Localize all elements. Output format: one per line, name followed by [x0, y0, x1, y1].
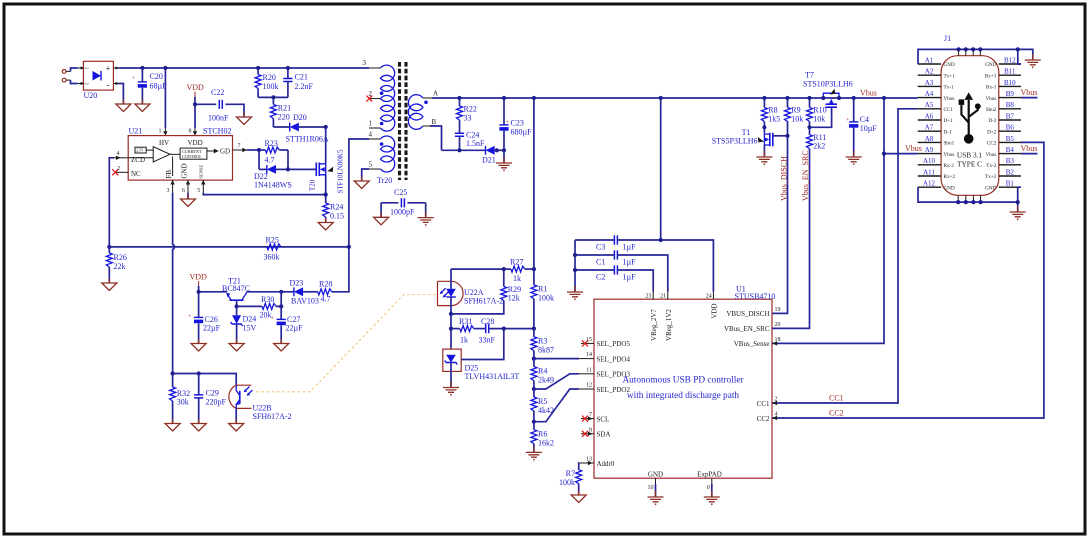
- svg-text:20: 20: [775, 322, 781, 328]
- svg-text:5: 5: [369, 161, 373, 169]
- svg-text:B3: B3: [1006, 157, 1015, 165]
- svg-text:680µF: 680µF: [511, 128, 533, 137]
- junction R22 top: [457, 96, 461, 100]
- capacitor C27: [271, 315, 304, 344]
- svg-text:B9: B9: [1006, 90, 1015, 98]
- svg-text:STCH02: STCH02: [203, 127, 231, 136]
- ground (C25 primary side): [374, 213, 389, 225]
- svg-text:GND: GND: [985, 185, 996, 191]
- earth ground (C23/D21): [496, 157, 512, 172]
- transformer Tr20 primary winding 3-2: [363, 59, 395, 101]
- pin HV (1): [159, 128, 168, 136]
- svg-text:2: 2: [775, 397, 778, 403]
- svg-text:B7: B7: [1006, 112, 1015, 120]
- svg-text:HV: HV: [159, 139, 169, 147]
- resistor R7: [559, 469, 582, 495]
- J1 shield pin: [965, 195, 967, 202]
- wire input N to bridge: [71, 80, 78, 83]
- J1 pin A3: [918, 79, 941, 87]
- junction sense node: [324, 193, 328, 197]
- svg-text:12k: 12k: [508, 294, 520, 303]
- capacitor C26: [188, 314, 221, 344]
- svg-text:R26: R26: [114, 253, 127, 262]
- svg-text:STS5P3LLH6: STS5P3LLH6: [712, 137, 758, 146]
- svg-text:R9: R9: [791, 106, 800, 115]
- svg-text:D-2: D-2: [988, 118, 996, 124]
- wire GD to gate network: [247, 149, 260, 151]
- U1 right pin 20 VBus_EN_SRC wire: [772, 149, 810, 329]
- earth ground (U1 GND): [648, 491, 664, 506]
- pin ZCD (4): [114, 151, 128, 160]
- svg-text:22µF: 22µF: [203, 324, 221, 333]
- caps common ground wire: [574, 240, 576, 292]
- wire C25 right to earth: [425, 203, 427, 218]
- svg-text:18: 18: [775, 337, 781, 343]
- polarity dot (pin4 side): [380, 142, 384, 146]
- wire aux pin5 to ground: [362, 169, 369, 181]
- shunt reference D25 TLVH431: [443, 349, 520, 381]
- junction C4: [852, 96, 856, 100]
- wire HV down: [164, 68, 166, 128]
- svg-text:B12: B12: [1004, 56, 1016, 64]
- junction HV: [163, 66, 167, 70]
- ground (C20): [135, 100, 150, 112]
- svg-text:4: 4: [117, 151, 120, 157]
- svg-text:+: +: [106, 64, 111, 74]
- wire aux sense down to R28: [332, 247, 349, 292]
- junction ZCD/R26: [107, 245, 111, 249]
- svg-text:D21: D21: [482, 156, 496, 165]
- svg-text:A8: A8: [925, 135, 934, 143]
- junction PDO4 node: [532, 357, 536, 361]
- junction D25 ref: [502, 327, 506, 331]
- svg-text:B8: B8: [1006, 101, 1015, 109]
- earth ground (D25): [443, 382, 459, 397]
- svg-text:C21: C21: [295, 73, 308, 82]
- junction C23 top: [502, 96, 506, 100]
- junction gate node: [286, 167, 290, 171]
- svg-text:220pF: 220pF: [206, 398, 227, 407]
- USB logo: [959, 92, 981, 143]
- svg-text:Tr20: Tr20: [377, 176, 392, 185]
- ground (U22B): [229, 419, 244, 431]
- ground (C22): [237, 113, 252, 125]
- svg-text:VDD: VDD: [187, 83, 205, 92]
- junction base node: [235, 304, 239, 308]
- diode D22: [254, 165, 292, 190]
- svg-text:22µF: 22µF: [286, 324, 304, 333]
- pin GD (7): [233, 144, 247, 153]
- earth ground (ExpPAD): [704, 491, 720, 506]
- svg-text:TYPE C: TYPE C: [957, 160, 982, 169]
- capacitor C28: [479, 317, 534, 345]
- wire B to snubber: [430, 126, 442, 150]
- net label Vbus (B4): [1021, 144, 1038, 154]
- svg-text:15: 15: [586, 337, 592, 343]
- U1 top pin 23: [646, 292, 654, 300]
- svg-text:1.5nF: 1.5nF: [466, 139, 485, 148]
- svg-text:Vbus: Vbus: [985, 152, 996, 158]
- resistor R4: [531, 359, 554, 389]
- svg-text:R21: R21: [278, 104, 291, 113]
- svg-text:Tx-1: Tx-1: [944, 85, 954, 91]
- junction R21: [271, 95, 275, 99]
- wire U22B emitter to ground: [235, 408, 237, 423]
- resistor R28: [303, 280, 332, 304]
- ground (C26): [191, 339, 206, 351]
- svg-text:Autonomous USB PD controller: Autonomous USB PD controller: [622, 376, 744, 386]
- svg-text:GD: GD: [220, 148, 230, 156]
- earth ground (J1 top shield): [1025, 54, 1041, 69]
- svg-text:SDA: SDA: [597, 431, 611, 439]
- svg-text:10k: 10k: [813, 115, 825, 124]
- resistor R23: [259, 139, 288, 165]
- U1 right pin 4 CC2 wire: [772, 142, 1044, 420]
- junction FB/R32: [171, 371, 175, 375]
- wire gate network right leg: [287, 150, 289, 169]
- svg-text:22k: 22k: [114, 262, 126, 271]
- J1 pin B5: [999, 135, 1021, 143]
- wire D25 anode to earth: [450, 371, 452, 387]
- U1 top pin 24: [706, 292, 714, 300]
- wire VDD node: [195, 97, 216, 128]
- pin FB (3): [167, 180, 175, 194]
- svg-text:10k: 10k: [791, 115, 803, 124]
- wire pin5 to sense node: [203, 193, 325, 195]
- svg-text:Rx-1: Rx-1: [986, 85, 997, 91]
- svg-text:8k87: 8k87: [538, 346, 554, 355]
- junction U22A/R31: [449, 327, 453, 331]
- U1 left pin 11 SEL_PDO3: [579, 367, 594, 374]
- junction VDD/C22: [193, 102, 197, 106]
- resistor R9: [785, 98, 804, 124]
- svg-text:12: 12: [586, 383, 592, 389]
- J1 shield pin: [980, 195, 982, 202]
- svg-text:R10: R10: [813, 106, 826, 115]
- svg-text:C4: C4: [860, 115, 869, 124]
- wire B1 to shield: [1018, 187, 1021, 212]
- junction PDO2 node: [532, 420, 536, 424]
- svg-text:U21: U21: [129, 127, 143, 136]
- optical coupling dashed link: [256, 295, 437, 392]
- wire ZCD pin to divider: [109, 158, 114, 247]
- svg-text:VBUS_DISCH: VBUS_DISCH: [726, 310, 769, 318]
- svg-text:J1: J1: [944, 34, 951, 43]
- junction C29: [197, 371, 201, 375]
- U1 left pin 15 SEL_PDO5: [581, 337, 594, 347]
- wire aux pin4 sense: [349, 139, 369, 247]
- junction VDD/C26: [197, 290, 201, 294]
- svg-text:Vbus: Vbus: [905, 144, 922, 153]
- svg-text:100k: 100k: [263, 82, 279, 91]
- wire T20 source down: [325, 175, 327, 203]
- svg-text:CONTROL: CONTROL: [182, 154, 202, 159]
- junction R10 rail: [807, 96, 811, 100]
- wire opto top row: [451, 268, 511, 270]
- svg-text:D+2: D+2: [987, 129, 997, 135]
- svg-text:R27: R27: [510, 258, 523, 267]
- resistor R21: [270, 97, 291, 127]
- svg-text:Tx+2: Tx+2: [985, 174, 997, 180]
- svg-text:1µF: 1µF: [623, 273, 637, 282]
- svg-text:23: 23: [646, 294, 652, 300]
- U1 right pin 18 VBus_Sense wire: [772, 98, 884, 346]
- J1 pin A9: [918, 146, 941, 154]
- junction T21 collector node: [279, 290, 283, 294]
- svg-text:Vbus_DISCH: Vbus_DISCH: [779, 156, 788, 201]
- svg-text:0: 0: [707, 485, 710, 491]
- diode D20: [286, 113, 329, 144]
- wire VDD to T21 emitter: [199, 291, 228, 293]
- svg-text:CC1: CC1: [829, 394, 844, 403]
- svg-text:68µF: 68µF: [150, 82, 168, 91]
- ground (R7): [571, 491, 586, 503]
- svg-text:R20: R20: [263, 73, 276, 82]
- junction T7 source: [821, 96, 825, 100]
- junction R9 rail: [785, 96, 789, 100]
- svg-text:B1: B1: [1006, 180, 1015, 188]
- diode D21: [482, 146, 504, 165]
- svg-text:B: B: [432, 118, 437, 126]
- svg-text:ZCD: ZCD: [131, 156, 145, 164]
- ground (D24): [229, 339, 244, 351]
- svg-text:15V: 15V: [243, 324, 257, 333]
- J1 pin A11: [918, 168, 941, 176]
- junction R20: [256, 66, 260, 70]
- polarity dot (pin1 side): [380, 122, 384, 126]
- svg-text:13: 13: [586, 457, 592, 463]
- J1 shield pin: [958, 49, 960, 55]
- capacitor C4: [846, 98, 877, 157]
- svg-text:Sbu2: Sbu2: [986, 107, 997, 113]
- svg-text:NC: NC: [131, 170, 141, 178]
- svg-text:A2: A2: [925, 68, 934, 76]
- svg-text:C29: C29: [206, 389, 219, 398]
- resistor R8: [761, 98, 780, 132]
- bridge rectifier U20: [78, 61, 120, 90]
- junction C2 left: [573, 268, 577, 272]
- svg-text:A10: A10: [923, 157, 936, 165]
- wire drain node down: [325, 127, 327, 164]
- controller U21 STCH02: [128, 127, 232, 181]
- wire SEL_PDO4: [534, 358, 579, 360]
- wire bridge minus to ground: [119, 84, 124, 105]
- wire C22 to ground: [225, 104, 244, 117]
- junction C3 row: [659, 238, 663, 242]
- J1 pin A4: [918, 90, 941, 98]
- J1 pin A2: [918, 68, 941, 76]
- AC input terminal P1 (upper pin): [62, 70, 70, 74]
- svg-text:CC2: CC2: [829, 409, 844, 418]
- svg-text:Vbus: Vbus: [944, 152, 955, 158]
- svg-text:11: 11: [586, 367, 592, 373]
- J1 shield pin: [972, 195, 974, 202]
- svg-text:R25: R25: [266, 236, 279, 245]
- polarity dot (A side): [424, 101, 428, 105]
- resistor R1: [531, 269, 554, 329]
- svg-text:B10: B10: [1004, 79, 1016, 87]
- svg-text:8: 8: [189, 129, 192, 135]
- svg-text:7: 7: [589, 412, 592, 418]
- resistor R32: [170, 374, 191, 424]
- svg-text:33: 33: [464, 114, 472, 123]
- svg-text:STF10LN80K5: STF10LN80K5: [337, 149, 345, 193]
- svg-text:VReg_1V2: VReg_1V2: [665, 309, 673, 341]
- svg-text:D-1: D-1: [944, 129, 952, 135]
- ground (U21 GND): [181, 195, 196, 207]
- svg-text:Vbus: Vbus: [985, 96, 996, 102]
- wire SEL_PDO2: [534, 389, 579, 422]
- U1 left pin 13 Addr0: [579, 457, 594, 466]
- svg-text:VBus_EN_SRC: VBus_EN_SRC: [724, 325, 770, 333]
- svg-text:GND: GND: [985, 62, 996, 68]
- svg-text:1µF: 1µF: [623, 243, 637, 252]
- divider chain vertical from rail: [533, 98, 535, 269]
- svg-text:Tx+1: Tx+1: [944, 73, 956, 79]
- pin 5 sense: [197, 180, 205, 194]
- svg-text:R8: R8: [768, 106, 777, 115]
- svg-text:A12: A12: [923, 180, 936, 188]
- optocoupler U22B (phototransistor): [229, 385, 292, 421]
- svg-text:B4: B4: [1006, 146, 1015, 154]
- svg-text:2: 2: [117, 166, 120, 172]
- junction U22A cathode/row: [449, 312, 453, 316]
- svg-text:4: 4: [369, 131, 373, 139]
- svg-text:SEL_PDO3: SEL_PDO3: [597, 371, 631, 379]
- wire collector node to C27: [280, 292, 282, 319]
- svg-text:30k: 30k: [177, 398, 189, 407]
- svg-text:B11: B11: [1004, 68, 1016, 76]
- svg-text:D+1: D+1: [944, 118, 954, 124]
- resistor R29: [501, 269, 521, 302]
- J1 pin B10: [999, 79, 1021, 87]
- svg-text:2k49: 2k49: [538, 376, 554, 385]
- ground (R26): [102, 279, 117, 291]
- svg-text:VDD: VDD: [190, 273, 208, 282]
- svg-text:B6: B6: [1006, 124, 1015, 132]
- svg-text:VReg_2V7: VReg_2V7: [650, 309, 658, 341]
- J1 shield pin: [957, 195, 959, 202]
- svg-text:R7: R7: [566, 469, 575, 478]
- diode D23: [281, 279, 319, 306]
- junction C21: [286, 66, 290, 70]
- junction rail/VDD branch: [659, 96, 663, 100]
- capacitor C1: [575, 250, 668, 291]
- svg-text:Sbu1: Sbu1: [944, 141, 955, 147]
- ground (aux winding): [354, 177, 369, 189]
- svg-text:10: 10: [648, 485, 654, 491]
- J1 pin B3: [999, 157, 1021, 165]
- svg-text:GND: GND: [944, 62, 955, 68]
- wire C25 left to ground: [380, 203, 382, 218]
- J1 pin A1: [918, 56, 941, 64]
- earth ground (C1-C3): [567, 286, 583, 301]
- secondary rail wire: [432, 97, 918, 99]
- junction C20: [140, 66, 144, 70]
- svg-text:CC1: CC1: [944, 107, 954, 113]
- J1 pin B2: [999, 168, 1021, 176]
- J1 pin B1: [999, 180, 1021, 188]
- wire T1 source to earth: [763, 145, 765, 157]
- U1 top pin 21: [660, 292, 668, 300]
- transistor T7 STS10P3LLH6: [803, 71, 853, 108]
- svg-text:A5: A5: [925, 101, 934, 109]
- svg-text:3: 3: [363, 59, 367, 67]
- wire input L to bridge: [71, 68, 78, 71]
- capacitor C20: [132, 68, 168, 104]
- svg-text:1: 1: [159, 129, 162, 135]
- svg-text:5: 5: [197, 188, 200, 194]
- svg-text:SEL_PDO4: SEL_PDO4: [597, 355, 631, 363]
- optocoupler U22A (LED side): [438, 269, 504, 349]
- svg-text:SFH617A-2: SFH617A-2: [464, 297, 503, 306]
- resistor R20: [255, 68, 278, 97]
- svg-text:24: 24: [706, 294, 712, 300]
- capacitor C25: [381, 188, 426, 217]
- J1 shield pin: [979, 49, 981, 55]
- ground (R24): [318, 218, 333, 230]
- junction drain node: [324, 125, 328, 129]
- svg-text:3: 3: [167, 188, 170, 194]
- polarity dot (pin2 side): [380, 91, 384, 95]
- capacitor C24: [455, 131, 485, 151]
- svg-text:GND: GND: [181, 163, 189, 178]
- ground (C29): [191, 419, 206, 431]
- net label VDD (top): [187, 83, 205, 97]
- primary top rail wire: [119, 67, 370, 69]
- svg-text:220: 220: [278, 113, 290, 122]
- svg-text:VDD: VDD: [710, 303, 718, 318]
- svg-text:R4: R4: [538, 367, 547, 376]
- svg-text:1µF: 1µF: [623, 258, 637, 267]
- svg-text:R5: R5: [538, 397, 547, 406]
- J1 bottom shield wire: [918, 187, 1018, 202]
- svg-text:Rx+2: Rx+2: [944, 174, 956, 180]
- transformer Tr20 aux winding 4-5: [369, 131, 395, 172]
- svg-text:STS10P3LLH6: STS10P3LLH6: [803, 80, 853, 89]
- resistor R26: [106, 247, 127, 283]
- svg-text:VBus_Sense: VBus_Sense: [734, 340, 770, 348]
- pin GND (6): [182, 180, 190, 194]
- transistor T21 BC847C: [222, 277, 250, 301]
- wire GND pin to ground: [187, 193, 189, 199]
- U1 right pin 2 CC1 wire: [772, 109, 918, 405]
- svg-text:Tx-2: Tx-2: [986, 163, 996, 169]
- svg-text:Vbus_EN_SRC: Vbus_EN_SRC: [801, 150, 810, 201]
- transformer Tr20 core: [400, 62, 407, 180]
- USB connector J1: [941, 34, 999, 195]
- svg-text:Vbus: Vbus: [1021, 88, 1038, 97]
- svg-text:C28: C28: [481, 317, 494, 326]
- svg-text:R30: R30: [261, 295, 274, 304]
- J1 pin A6: [918, 112, 941, 120]
- svg-text:SEL_PDO5: SEL_PDO5: [597, 340, 631, 348]
- no-connect X on pin 2: [366, 96, 372, 102]
- capacitor C2: [575, 265, 653, 291]
- J1 pin A7: [918, 124, 941, 132]
- earth ground (C4): [846, 151, 862, 166]
- svg-text:A6: A6: [925, 112, 934, 120]
- junction R27/R29: [502, 267, 506, 271]
- svg-text:TLVH431AIL3T: TLVH431AIL3T: [465, 372, 520, 381]
- wire R21 to D20: [273, 126, 289, 128]
- controller U1 STUSB4710: [594, 285, 775, 479]
- junction FB node: [532, 327, 536, 331]
- junction C24 bottom: [457, 148, 461, 152]
- junction T1 gate / R9: [785, 134, 789, 138]
- wire collector node to T21: [247, 291, 281, 293]
- svg-text:D20: D20: [293, 113, 307, 122]
